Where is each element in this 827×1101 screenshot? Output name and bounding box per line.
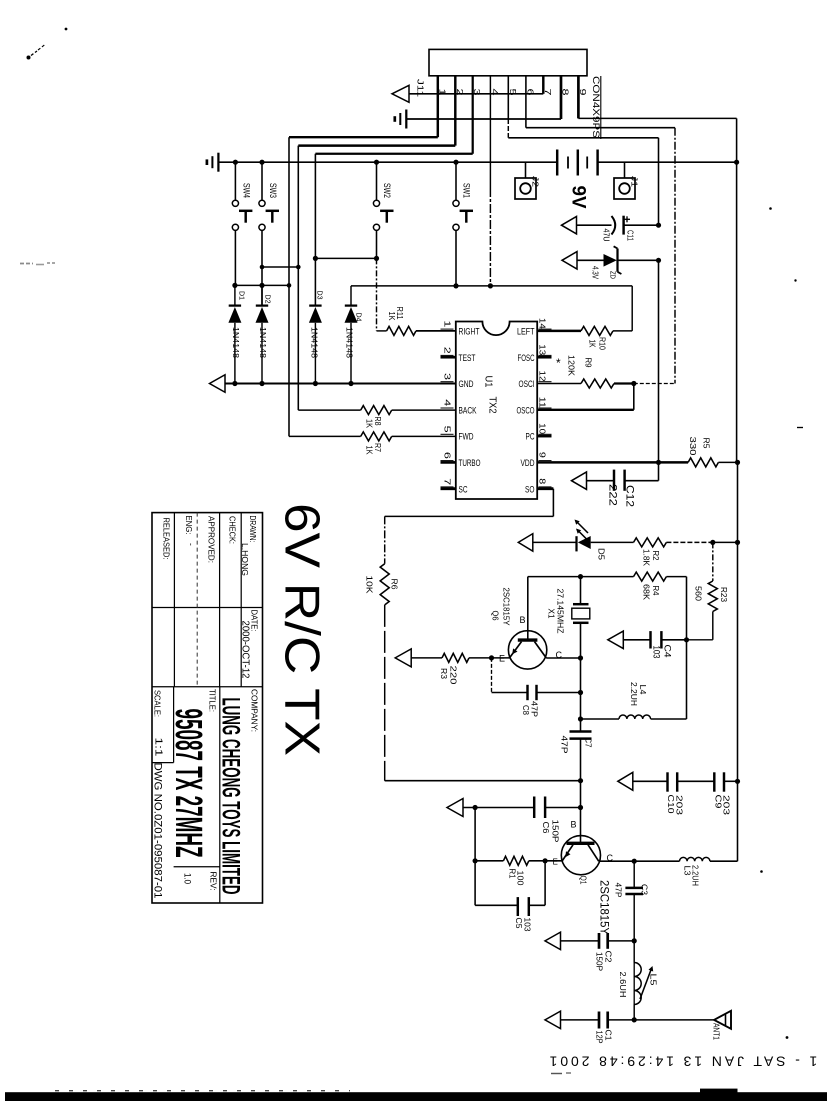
label L3 value 2.2UH [691,865,701,886]
label Q6 value 2SC1815Y [502,588,512,626]
junction D2 top [259,283,264,288]
junction D3 GND [313,381,318,386]
LED D5 emission arrows [575,520,582,534]
svg-text:560: 560 [694,586,704,601]
label L5 [649,974,659,986]
svg-text:12: 12 [538,371,547,383]
label R10 [598,337,607,350]
svg-text:1N4148: 1N4148 [258,327,268,358]
label R7 value 1K [365,446,374,456]
pin 2 number (left) [441,347,454,356]
label R1 value 100 [516,871,526,886]
capacitor C11 47U [577,216,659,235]
fax header text [547,1054,818,1070]
speck right 5 [760,870,763,873]
label R8 value 1K [365,419,374,429]
label Q1 C [607,853,614,863]
label SW3 [268,183,278,198]
faint marks left-middle [20,263,56,265]
label C3 [640,884,650,895]
wire D4/SW1 node to R10 corner [351,286,632,331]
svg-text:1K: 1K [387,312,396,322]
label R3 value 220 [449,666,459,685]
label SCALE [153,690,163,717]
title block outer frame [152,513,263,903]
capacitor C12 222 [587,462,659,490]
label rev value 1.0 [183,873,193,884]
capacitor C7 47P [570,732,592,781]
pin name OSCI [519,379,535,390]
ground arrow (D5) [518,534,533,552]
pin 1 number (left) [441,320,454,329]
zener diode ZD 4.3V [577,246,659,274]
label C6 [541,822,551,834]
pin 8 number (right) [538,478,552,487]
pin name RIGHT [459,327,480,338]
ground arrow (connector pin 7) [392,85,409,102]
junction R23 top [710,540,715,545]
ground arrow (zener) [562,252,577,269]
antenna ANT1 [714,1011,731,1029]
junction D1 top [232,283,237,288]
svg-text:COMPANY:: COMPANY: [250,689,260,732]
label R3 [439,668,449,679]
wire battery minus line [218,161,557,163]
svg-text:1 - SAT JAN 13 14:29:48 2001: 1 - SAT JAN 13 14:29:48 2001 [547,1054,818,1070]
svg-text:E: E [553,858,558,867]
wire Q6 collector to X1 column [546,657,580,659]
svg-text:4: 4 [443,399,452,407]
connector J11 pin 4 number [490,89,500,96]
svg-text:FWD: FWD [459,432,474,443]
junction C3 top [632,859,637,864]
label C9 value 203 [722,795,732,815]
wire Q1 collector line [599,860,680,862]
wire OSCO to node [537,384,634,410]
label X1 value 27.145MHZ [556,589,566,634]
earth ground (connector pin 8) [395,110,407,129]
wire pin5 to VDD rail [508,76,658,225]
pin name GND [459,379,474,390]
title block signature column dividers [174,513,241,687]
label C12 value 222 [607,484,619,506]
label SW1 [462,183,472,198]
label C6 value 150P [551,820,561,843]
speck right 4 [786,1036,789,1039]
svg-text:2SC1815Y: 2SC1815Y [598,880,610,935]
jack J1 [614,162,635,199]
svg-text:SW1: SW1 [462,183,472,198]
svg-text:1.8K: 1.8K [642,549,652,566]
asterisk mark [556,356,561,370]
switch SW1 [453,162,473,286]
label D1 value 1N4148 [231,327,241,358]
label D2 value 1N4148 [258,327,268,358]
svg-text:SO: SO [525,484,535,495]
diode D2 1N4148 [256,285,269,383]
svg-text:5: 5 [508,89,518,96]
svg-text:C3: C3 [640,884,650,895]
svg-text:6: 6 [525,89,535,96]
resistor R8 1K [298,406,456,415]
connector value label CON4X9PS [591,76,601,139]
svg-text:R6: R6 [390,579,400,590]
svg-text:OSCO: OSCO [517,405,535,416]
svg-text:D5: D5 [597,548,607,560]
capacitor C9 203 [714,772,737,791]
label D4 value 1N4148 [345,327,355,358]
svg-text:DRAWN:: DRAWN: [248,516,258,543]
label R23 value 560 [694,586,704,601]
label C7 value 47P [560,736,570,754]
svg-text:PC: PC [526,432,535,443]
svg-text:TURBO: TURBO [459,458,481,469]
wire GND bus to IC pin3 [225,383,456,385]
label X1 [547,609,557,619]
svg-text:L.HONG: L.HONG [240,543,250,576]
svg-text:1: 1 [443,320,452,328]
label R9 [584,358,594,368]
svg-text:5: 5 [443,426,452,434]
switch SW3 [259,162,279,305]
svg-text:2SC1815Y: 2SC1815Y [502,588,512,626]
svg-text:TEST: TEST [459,353,476,364]
resistor R10 1K [537,326,632,335]
label R6 value 10K [365,576,375,594]
connector J11 pin 6 number [525,89,535,96]
svg-text:150P: 150P [595,952,605,971]
label C9 [714,795,724,809]
inductor L4 2.2UH [581,715,687,719]
svg-text:R2: R2 [651,551,661,561]
svg-text:X1: X1 [547,609,557,619]
svg-text:R23: R23 [719,587,729,602]
svg-text:B: B [520,615,526,625]
capacitor C2 150P [561,933,635,949]
wire X1 column (collector to C8) [580,658,582,693]
svg-text:47P: 47P [614,883,624,898]
transistor Q6 2SC1815Y [508,577,546,670]
resistor R11 1K [377,326,456,335]
title block company/title dividers [152,687,220,903]
connector J11 body [429,49,587,75]
junction SW4 top [233,160,238,165]
wire battery plus to right rail [598,161,737,163]
svg-text:VDD: VDD [521,458,535,469]
ground arrow (C1) [545,1011,561,1029]
capacitor C10 203 [633,772,715,791]
label L3 [683,866,693,876]
svg-text:R10: R10 [598,337,607,350]
svg-text:C7: C7 [584,738,594,748]
label ANT1 [712,1023,722,1040]
svg-text:1N4148: 1N4148 [345,327,355,358]
capacitor C8 47P [492,658,581,700]
label 6V R/C TX [275,503,329,756]
connector J11 pin 1 number [437,89,447,96]
label R23 [719,587,729,602]
label Q1 value 2SC1815Y [598,880,610,935]
junction C4/R23 node [684,637,689,642]
svg-text:150P: 150P [551,820,561,843]
bottom scan bar marks [55,1073,738,1093]
junction OSCI/OSCO node [631,381,636,386]
label C8 [521,705,531,715]
speck right 1 [769,207,772,210]
svg-text:J2: J2 [531,176,541,187]
label C8 value 47P [530,701,540,717]
svg-text:68K: 68K [642,584,652,600]
junction SW2 top [374,160,379,165]
svg-text:-: - [187,543,197,546]
ground arrow (R3) [395,649,411,667]
pin name VDD [521,458,535,469]
label Q1 [579,876,588,885]
svg-text:95087 TX 27MHZ: 95087 TX 27MHZ [167,709,209,858]
resistor R4 68K [0,0,1,1]
svg-text:8: 8 [538,478,547,485]
connector J11 pin 2 number [455,89,465,96]
junction C6 left node [473,805,478,810]
resistor R9 120K [537,379,634,388]
wire right rail bottom [710,542,738,861]
pin name SO [525,484,535,495]
label date value 2000-OCT-12 [239,621,250,679]
svg-text:203: 203 [675,795,685,815]
label C12 [624,485,636,507]
pin 14 number (right) [538,318,552,330]
resistor R23 560 [687,542,718,639]
svg-text:L5: L5 [649,974,659,986]
ground arrow (C2) [545,932,561,950]
ground arrow (C6) [447,799,463,817]
label D3 value 1N4148 [310,327,320,358]
pin 11 number (right) [538,397,552,409]
label REV [209,872,219,891]
pin 3 number (left) [441,373,454,382]
pin name LEFT [517,327,535,338]
ground arrow (C11) [562,216,577,234]
junction battery line / right rail [734,160,739,165]
label D4 [355,313,364,322]
label ZD [609,271,618,279]
label SW4 [242,183,252,198]
junction Q6 emitter node [489,655,494,660]
ground arrow (C10) [618,772,633,790]
ground arrow (C4) [608,631,624,649]
label scale value 1:1 [153,738,165,757]
svg-text:1.0: 1.0 [183,873,193,884]
svg-text:9V: 9V [568,186,590,209]
wire pin2 column to R8 [298,76,455,410]
svg-text:1N4148: 1N4148 [231,327,241,358]
label Q6 [491,611,501,621]
diode D4 1N4148 [345,306,358,384]
svg-text:1K: 1K [365,419,374,429]
svg-text:REV:: REV: [209,872,219,891]
svg-text:C10: C10 [666,795,676,814]
inductor L3 2.2UH [680,857,710,861]
label R4 [651,586,661,596]
speck right 3 [797,427,803,429]
junction R1 right / C5 column [543,858,548,863]
label C5 [514,918,524,929]
svg-text:ENG:: ENG: [184,516,194,535]
label R9 value 120K [567,355,577,376]
svg-text:6: 6 [443,452,452,460]
label C4 value 103 [652,646,662,659]
wire pin7 to ground arrow [409,76,543,94]
pin name OSCO [517,405,535,416]
svg-text:1N4148: 1N4148 [310,327,320,358]
svg-text:R5: R5 [702,438,712,449]
svg-text:GND: GND [459,379,474,390]
svg-text:14: 14 [538,318,547,330]
label TX2 [487,397,498,414]
pin stub FOSC [537,356,551,359]
wire SO to R6 [385,489,554,564]
label DWG NO [152,763,164,899]
pin 10 number (right) [538,423,552,435]
junction pin1 column / D-wire [287,283,292,288]
label 4.3V [591,266,600,280]
svg-text:120K: 120K [567,355,577,376]
junction D3 top [313,256,318,261]
switch SW2 [373,162,393,258]
label LUNG CHEONG TOYS LIMITED [217,698,245,895]
pin name BACK [459,405,477,416]
diode D3 1N4148 [309,306,322,384]
bottom black bar [5,1092,827,1101]
wire Q1 base column [580,781,582,844]
connector J11 pin 8 number [561,89,571,96]
label C2 [604,951,614,963]
svg-text:1K: 1K [365,446,374,456]
pin name PC [526,432,535,443]
junction D2 GND [259,381,264,386]
pin 6 number (left) [441,452,454,461]
pin 9 number (right) [538,452,552,461]
pin stub TEST [441,356,456,359]
LED D5 [533,521,634,552]
wire pin9 to right rail [578,76,736,162]
junction R5 / right rail [735,460,740,465]
label D3 [316,291,325,300]
label L4 [638,685,648,695]
switch SW4 [232,162,252,285]
junction VDD/pin5 rail [656,460,661,465]
label CHECK [228,516,238,544]
label R4 value 68K [642,584,652,600]
label C3 value 47P [614,883,624,898]
junction zener / rail [656,258,661,263]
capacitor C5 103 [475,861,545,916]
svg-text:13: 13 [538,344,547,356]
junction L4 left [578,716,583,721]
junction C8 right [578,690,583,695]
svg-text:J11: J11 [416,79,425,98]
svg-text:APPROVED:: APPROVED: [207,516,217,563]
svg-text:R3: R3 [439,668,449,679]
svg-text:103: 103 [523,918,533,932]
wire right rail (pin9/VDD) [736,162,739,542]
label SW2 [382,183,392,198]
svg-text:47P: 47P [560,736,570,754]
crystal X1 27.145MHZ [572,577,590,658]
label R11 [395,307,404,320]
label DATE [250,610,260,632]
label J1 [630,176,640,187]
label L.HONG [240,543,250,576]
title block band lines [152,608,263,687]
wire R4/C4/L4 right column [686,577,688,719]
label D5 [597,548,607,560]
wire pin4 column down [489,76,491,286]
wire base node Q6 (to R4) [528,576,581,578]
svg-text:10: 10 [538,423,547,435]
capacitor C4 103 [623,631,686,648]
inductor L5 adjustment arrow [640,966,653,999]
pin stub PC [537,435,551,438]
label Q6 C [556,650,563,660]
svg-text:LEFT: LEFT [517,327,535,338]
wire VDD line [537,461,688,463]
svg-text:SW2: SW2 [382,183,392,198]
svg-text:2000-OCT-12: 2000-OCT-12 [239,621,250,679]
svg-text:2.2UH: 2.2UH [691,865,701,886]
svg-text:220: 220 [449,666,459,685]
pin 5 number (left) [441,426,454,435]
label C10 value 203 [675,795,685,815]
resistor R5 330 [688,458,737,467]
junction SW2 bottom [374,256,379,261]
label APPROVED [207,516,217,563]
svg-text:U1: U1 [483,376,494,388]
junction SW1 top [453,160,458,165]
label C11 [626,230,636,241]
label R2 [651,551,661,561]
label D1 [238,291,247,300]
svg-text:SW3: SW3 [268,183,278,198]
label C2 value 150P [595,952,605,971]
junction SW1 bottom node [453,283,458,288]
wire pin6 to oscillator node [526,76,675,384]
earth ground (battery line left) [207,153,219,172]
connector J11 pin 9 number [578,89,588,96]
svg-text:100: 100 [516,871,526,886]
label R8 [373,417,382,426]
wire to antenna [634,1019,714,1021]
junction D1 GND [232,381,237,386]
svg-text:2.2UH: 2.2UH [629,682,639,706]
label C1 [604,1030,614,1041]
resistor R4 68K zigzag [581,572,687,581]
svg-text:C8: C8 [521,705,531,715]
label 9V [568,186,590,209]
transistor Q1 2SC1815Y [561,836,600,875]
speck top-left [65,28,68,31]
svg-text:Q1: Q1 [579,876,588,885]
svg-text:103: 103 [652,646,662,659]
svg-text:11: 11 [538,397,547,409]
label R11 value 1K [387,312,396,322]
label D2 [264,295,273,304]
svg-text:J1: J1 [630,176,640,187]
svg-text:222: 222 [607,484,619,506]
wire SW2 node to R11 [376,258,378,331]
svg-text:C6: C6 [541,822,551,834]
label R1 [508,869,518,879]
